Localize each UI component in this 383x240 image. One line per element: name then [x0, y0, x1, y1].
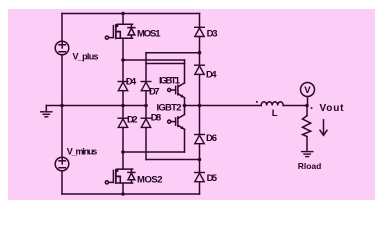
diode D2 — [118, 106, 128, 153]
inductor L — [261, 102, 307, 106]
label IGBT2 — [148, 101, 183, 114]
svg-text:MOS1: MOS1 — [137, 29, 161, 40]
node D3 D4 junction — [198, 51, 202, 55]
wire V_minus bottom — [61, 171, 63, 194]
diode D6 — [195, 106, 205, 160]
diode D7 — [141, 82, 151, 106]
node MOS2 source bottom rail — [121, 192, 125, 196]
wire top rail — [62, 13, 200, 15]
diode D5 — [195, 160, 205, 195]
svg-text:D3: D3 — [207, 29, 218, 40]
diode D3 — [195, 14, 205, 53]
wire mid rail to ground — [46, 106, 62, 112]
wire IGBT1 emitter — [184, 98, 186, 106]
wire IGBT2 collector — [184, 106, 186, 115]
node mid rail D7 junction — [144, 104, 148, 108]
svg-text:D7: D7 — [149, 87, 160, 98]
label D4 right — [206, 69, 217, 80]
node top rail / MOS1 drain junction — [121, 12, 125, 16]
label Rload — [298, 161, 322, 171]
label L — [272, 108, 278, 119]
svg-text:D8: D8 — [151, 113, 162, 124]
label V voltmeter — [304, 85, 311, 96]
label D4 left — [126, 77, 137, 88]
node Vout junction — [305, 104, 309, 108]
svg-text:D2: D2 — [127, 115, 138, 126]
arrow current direction — [320, 120, 327, 136]
resistor Rload — [303, 106, 311, 152]
node Vout probe dot — [311, 107, 313, 109]
label MOS2 — [137, 175, 163, 186]
node D6 D5 junction — [198, 158, 202, 162]
node mid rail right branch junction — [198, 104, 202, 108]
svg-text:D5: D5 — [207, 173, 218, 184]
label V_plus — [73, 52, 99, 62]
wire MOS1 source to IGBT1 collector — [123, 60, 185, 83]
label D2 — [127, 115, 138, 126]
diode D4 left — [118, 60, 128, 106]
wire V_plus to V_minus — [61, 55, 63, 157]
node mid rail / source column junction — [60, 104, 64, 108]
svg-text:Rload: Rload — [298, 161, 322, 171]
wire MOS1 source — [122, 38, 124, 60]
source V_minus — [55, 157, 69, 171]
svg-text:V_minus: V_minus — [67, 146, 98, 156]
svg-text:D6: D6 — [206, 133, 217, 144]
source V_plus — [55, 41, 69, 55]
svg-text:L: L — [272, 108, 278, 119]
label MOS1 — [137, 29, 161, 40]
diode D4 right — [195, 53, 205, 106]
svg-text:V: V — [304, 85, 311, 96]
wire D7 to IGBT1 collector — [146, 63, 185, 65]
svg-text:MOS2: MOS2 — [137, 175, 163, 186]
voltmeter V — [301, 83, 315, 106]
node mid rail D4 junction — [121, 104, 125, 108]
transistor IGBT2 — [168, 115, 185, 130]
label D6 — [206, 133, 217, 144]
label D5 — [207, 173, 218, 184]
transistor MOS2 — [105, 152, 135, 194]
transistor MOS1 — [105, 14, 135, 40]
wire mid rail — [62, 105, 261, 107]
label D8 — [151, 113, 162, 124]
svg-text:Vout: Vout — [320, 103, 345, 114]
node MOS2 drain junction — [121, 150, 125, 154]
transistor IGBT1 — [168, 83, 185, 98]
label IGBT1 — [159, 75, 181, 86]
label Vout — [320, 103, 345, 114]
wire IGBT2 emitter to MOS2 drain — [123, 129, 185, 152]
svg-text:V_plus: V_plus — [73, 52, 99, 62]
label D3 — [207, 29, 218, 40]
node L probe dot — [256, 101, 258, 103]
wire bottom rail — [62, 193, 200, 195]
svg-text:IGBT1: IGBT1 — [159, 75, 181, 86]
node MOS1 source junction — [121, 58, 125, 62]
ground Rload — [302, 152, 313, 157]
wire V_plus top — [61, 14, 63, 42]
wire D7 top — [146, 53, 200, 82]
wire D8 bottom — [146, 159, 200, 161]
svg-text:D4: D4 — [206, 69, 217, 80]
label V_minus — [67, 146, 98, 156]
node mid rail IGBT junction — [183, 104, 187, 108]
ground left — [41, 112, 52, 117]
svg-text:D4: D4 — [126, 77, 137, 88]
label D7 — [149, 87, 160, 98]
diode D8 — [141, 106, 151, 160]
